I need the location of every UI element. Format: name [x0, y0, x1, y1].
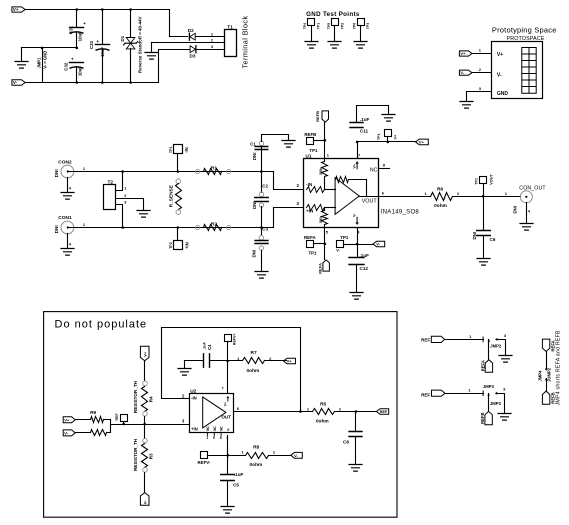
svg-text:NC: NC: [370, 167, 378, 173]
svg-text:D2: D2: [188, 28, 194, 33]
svg-text:Do not populate: Do not populate: [55, 319, 148, 331]
svg-text:+IN: +IN: [191, 427, 198, 432]
svg-text:TP4: TP4: [303, 23, 307, 29]
ground: [350, 293, 363, 300]
svg-text:U1: U1: [305, 154, 311, 160]
test point pad REFB: [322, 111, 329, 122]
svg-text:C33: C33: [89, 40, 94, 49]
svg-text:C1: C1: [250, 142, 256, 147]
svg-text:REFB: REFB: [550, 392, 555, 403]
net tag V- to protospace: [459, 70, 472, 75]
svg-text:GND: GND: [497, 91, 509, 97]
wire U1 pin 5 (REF A): [324, 228, 326, 260]
U1 internal resistor (+IN): [307, 205, 325, 211]
test point REFA square: [307, 241, 314, 248]
svg-text:GND Test Points: GND Test Points: [306, 11, 360, 18]
svg-text:JMP3: JMP3: [490, 401, 502, 406]
svg-text:REFV+: REFV+: [232, 333, 236, 345]
svg-text:R8: R8: [253, 444, 259, 450]
ground: [184, 361, 186, 369]
test point -IN: [174, 145, 183, 154]
svg-text:1: 1: [206, 436, 208, 440]
svg-text:R4: R4: [148, 396, 153, 402]
svg-text:REFV-: REFV-: [198, 460, 211, 465]
svg-text:REFA: REFA: [550, 340, 555, 351]
svg-text:DNI: DNI: [252, 201, 257, 209]
resistor R3 RESISTOR_TH: [144, 425, 146, 439]
capacitor C31 10uF: [76, 10, 78, 28]
net tag REF (R5): [376, 409, 388, 415]
svg-text:D1: D1: [120, 35, 125, 41]
svg-text:C32: C32: [64, 62, 69, 71]
capacitor C1 (DNI) with ground: [261, 146, 263, 172]
wire REF divider net: [111, 424, 190, 426]
svg-text:REFB: REFB: [304, 132, 316, 137]
wire U2 pin 6 output to R5: [234, 411, 313, 413]
svg-text:R5: R5: [320, 402, 326, 408]
U1 V+ arrow: [356, 163, 358, 169]
svg-text:NC: NC: [213, 426, 217, 431]
svg-text:T2: T2: [108, 180, 114, 186]
test point TP3 (GND): [358, 19, 365, 26]
svg-text:REF: REF: [421, 393, 430, 398]
svg-text:R7: R7: [251, 350, 257, 356]
ground: [382, 115, 395, 122]
net tag V- (R8): [291, 452, 302, 458]
svg-text:V- = GND: V- = GND: [42, 51, 47, 69]
svg-text:C12: C12: [360, 266, 369, 271]
svg-text:REFB: REFB: [315, 111, 320, 122]
ground: [61, 193, 74, 200]
net tag V+ vertical (R4): [140, 346, 149, 361]
svg-text:V-: V-: [143, 500, 148, 504]
svg-text:TP5: TP5: [327, 23, 331, 29]
test point REFV+ square: [225, 335, 232, 342]
ground: [305, 42, 318, 49]
svg-text:JUMP2: JUMP2: [547, 367, 552, 382]
svg-text:NC: NC: [206, 426, 210, 431]
svg-text:TP1: TP1: [316, 23, 320, 29]
svg-text:TP1: TP1: [377, 134, 381, 141]
net tag V- (DNP): [63, 430, 75, 436]
U1 internal resistor (REF B): [324, 159, 326, 162]
resistor R4 RESISTOR_TH: [144, 361, 146, 381]
svg-text:Reverse Standoff = 40-44V: Reverse Standoff = 40-44V: [138, 16, 143, 73]
terminal block T1: [225, 30, 237, 57]
svg-text:0ohm: 0ohm: [247, 368, 260, 374]
wire U1 pin 1 (REF B): [324, 123, 326, 159]
svg-text:DNI: DNI: [513, 206, 518, 214]
svg-text:DNI: DNI: [252, 250, 257, 258]
svg-text:Terminal Block: Terminal Block: [241, 15, 250, 68]
wire V+ rail: [26, 10, 170, 37]
svg-text:380k: 380k: [319, 216, 323, 224]
test point REFB square: [307, 138, 314, 145]
svg-text:.1uF: .1uF: [202, 341, 206, 349]
capacitor C12 .1uF: [349, 258, 364, 265]
svg-text:V+: V+: [394, 134, 398, 140]
resistor R9 bottom half: [76, 432, 91, 434]
net tag V+ to protospace: [459, 51, 472, 56]
svg-text:.1uF: .1uF: [360, 253, 370, 258]
svg-text:V-: V-: [460, 70, 464, 75]
wire REF to JMP2: [445, 339, 484, 341]
wire CON1 pin 4 to ground: [67, 234, 69, 249]
capacitor C11 .1uF: [350, 123, 363, 128]
TVS diode D1 Reverse Standoff = 40-44V: [130, 10, 132, 38]
svg-text:REFA: REFA: [481, 360, 486, 371]
U2 NC pins: [208, 432, 222, 436]
svg-text:10uF: 10uF: [78, 31, 83, 41]
svg-text:0ohm: 0ohm: [434, 203, 447, 209]
svg-text:-IN: -IN: [191, 396, 197, 401]
jumper JMP2: [488, 340, 491, 342]
net tag V+ (supply input): [12, 7, 25, 12]
svg-text:R1: R1: [211, 165, 217, 171]
svg-text:VOUT: VOUT: [362, 199, 378, 205]
wire REF to JMP3: [445, 393, 484, 395]
ground: [498, 414, 511, 421]
test point TP1 on V-: [337, 241, 344, 248]
svg-text:R2: R2: [211, 221, 217, 227]
capacitor C32 10uF: [70, 62, 84, 64]
ground: [61, 249, 74, 256]
svg-text:V+: V+: [353, 164, 357, 169]
svg-text:380k: 380k: [319, 168, 323, 176]
svg-text:V-: V-: [13, 80, 18, 85]
svg-text:DNI: DNI: [252, 153, 257, 161]
svg-text:V+: V+: [13, 7, 19, 12]
svg-text:V+: V+: [287, 359, 293, 364]
svg-text:+IN: +IN: [184, 242, 189, 249]
svg-text:10uF: 10uF: [78, 66, 83, 76]
resistor R9 top half: [76, 419, 91, 421]
svg-text:V-: V-: [294, 453, 298, 458]
svg-text:V-: V-: [226, 428, 230, 431]
svg-text:REF: REF: [115, 413, 119, 421]
test point TP1 on V+: [385, 130, 392, 137]
svg-text:R9: R9: [90, 410, 96, 416]
svg-text:V-: V-: [376, 242, 380, 247]
U1 internal feedback resistor: [336, 177, 349, 183]
svg-text:C31: C31: [68, 25, 73, 34]
connector CON_OUT (DNI): [520, 191, 532, 203]
svg-text:.1uF: .1uF: [360, 117, 370, 122]
test point REFV- square: [201, 452, 208, 459]
svg-text:V+: V+: [64, 418, 70, 423]
wire protospace pin 2: [473, 72, 492, 74]
svg-text:-IN: -IN: [306, 182, 313, 187]
net tag REFA (JMP2): [485, 360, 492, 373]
svg-text:NC: NC: [220, 426, 224, 431]
svg-text:C6: C6: [490, 237, 496, 242]
svg-text:5: 5: [213, 436, 215, 440]
ground: [499, 356, 512, 363]
net tag V- vertical (R3): [140, 493, 149, 506]
prototyping grid: [522, 48, 536, 94]
svg-text:TP1: TP1: [340, 235, 349, 240]
terminal block T2: [104, 185, 116, 210]
svg-text:INA149_SO8: INA149_SO8: [381, 209, 420, 215]
ground: [21, 48, 23, 62]
svg-text:JMP4: JMP4: [538, 370, 543, 382]
capacitor C2 (DNI): [261, 172, 263, 193]
net tag V+ (R7): [283, 358, 295, 364]
wire T2 pin 2 to ground: [116, 199, 144, 211]
svg-text:REFA: REFA: [304, 235, 317, 240]
svg-text:TP1: TP1: [309, 148, 318, 153]
net tag REFB (JMP3): [485, 411, 492, 424]
svg-text:0ohm: 0ohm: [250, 462, 263, 468]
test point TP1 (GND): [308, 19, 315, 26]
svg-text:TP1: TP1: [169, 147, 173, 154]
U1 internal resistor (REF A): [324, 208, 326, 211]
capacitor C3 (DNI) with ground: [261, 228, 263, 236]
do not populate boundary box: [44, 312, 397, 518]
net tag V+: [416, 139, 429, 145]
capacitor C33 10uF: [102, 10, 104, 45]
capacitor C5 .1uF with ground: [221, 475, 234, 481]
capacitor C4 .1uF: [185, 360, 204, 362]
svg-text:-IN: -IN: [184, 147, 189, 153]
svg-text:V+: V+: [224, 402, 228, 406]
resistor R8 0ohm: [228, 455, 246, 457]
svg-text:JMP1: JMP1: [37, 57, 42, 69]
ground: [520, 224, 533, 231]
svg-text:Prototyping Space: Prototyping Space: [492, 25, 557, 34]
resistor R2: [196, 225, 200, 229]
ground: [354, 42, 367, 49]
wire U1 pin 6 output: [379, 196, 431, 198]
svg-text:TP2: TP2: [169, 242, 173, 249]
ground: [328, 42, 341, 49]
svg-text:V+: V+: [419, 140, 425, 145]
svg-text:TP1: TP1: [309, 251, 318, 256]
net tag V-: [358, 244, 373, 246]
net tag V- (supply input): [12, 80, 25, 86]
connector CON2 (DNI): [61, 165, 74, 178]
test point REF: [121, 415, 128, 422]
svg-text:VOUT: VOUT: [489, 173, 493, 184]
svg-text:V+: V+: [460, 51, 466, 56]
svg-text:REFA: REFA: [318, 263, 323, 274]
op-amp U1 INA149_SO8: [304, 159, 379, 228]
test point pad REFA: [323, 260, 330, 271]
svg-text:V-: V-: [64, 431, 68, 436]
svg-text:10uF: 10uF: [100, 46, 105, 56]
svg-text:8: 8: [220, 436, 222, 440]
U1 output wire pin 6: [360, 196, 379, 198]
svg-text:DNI: DNI: [54, 169, 59, 177]
wire CON_OUT pin 4 to ground: [526, 203, 528, 224]
wire CON2 pin 1 net: [68, 171, 262, 173]
svg-text:C5: C5: [233, 483, 239, 488]
svg-text:R_SENSE: R_SENSE: [168, 184, 174, 207]
net tag REFB (JMP4): [542, 391, 549, 404]
svg-text:V+: V+: [497, 52, 503, 58]
svg-text:REF: REF: [421, 338, 430, 343]
svg-text:CON2: CON2: [58, 159, 72, 165]
svg-text:REF: REF: [380, 410, 388, 414]
wire V+ net: [358, 141, 416, 143]
svg-text:U2: U2: [190, 389, 196, 395]
wire R2 net to U1 pin 3: [262, 208, 304, 228]
svg-text:TP1: TP1: [475, 178, 479, 185]
U1 V- arrow: [356, 217, 358, 223]
diode D3: [159, 49, 190, 51]
svg-text:TP3: TP3: [366, 23, 370, 29]
svg-text:DNI: DNI: [54, 225, 59, 233]
svg-text:C2: C2: [262, 183, 268, 188]
wire GND to T1 pin 2: [152, 42, 225, 44]
test point +IN: [174, 241, 183, 250]
wire protospace pin 3: [467, 92, 492, 102]
wire R1 net to U1 pin 2: [262, 172, 304, 190]
U2 V+ arrow: [227, 397, 229, 401]
wire T2 pin 3: [116, 205, 123, 228]
svg-text:CON_OUT: CON_OUT: [519, 185, 546, 191]
test point TP2 (GND): [332, 19, 339, 26]
svg-text:TP6: TP6: [353, 23, 357, 29]
svg-text:+: +: [71, 57, 74, 62]
svg-text:JMP4 shorts REFA and REFB: JMP4 shorts REFA and REFB: [556, 330, 562, 405]
svg-text:R3: R3: [148, 453, 153, 459]
svg-text:C8: C8: [343, 440, 349, 445]
resistor R_SENSE (DNI): [176, 179, 181, 184]
wire CON1 pin 1 net: [68, 227, 262, 229]
svg-text:C11: C11: [360, 128, 369, 133]
resistor R1: [196, 169, 200, 173]
svg-text:JMP3: JMP3: [483, 384, 495, 389]
wire R6 to output node: [453, 196, 521, 198]
svg-text:D3: D3: [190, 54, 196, 59]
capacitor C6 (DNI) with ground: [483, 197, 485, 231]
net tag REFA (JMP4): [542, 339, 549, 351]
wire U1 pin 8 NC stub: [379, 168, 390, 170]
wire U1 pin 7 (V+): [357, 142, 359, 159]
connector CON1 (DNI): [61, 221, 74, 234]
svg-text:RESISTOR_TH: RESISTOR_TH: [133, 438, 138, 471]
svg-text:T1: T1: [227, 24, 233, 30]
wire U2 pin 4 net: [227, 436, 229, 475]
svg-text:REFB: REFB: [480, 412, 485, 423]
svg-text:CON1: CON1: [58, 215, 72, 221]
svg-text:V+: V+: [143, 351, 148, 357]
wire T2 pin 1: [116, 172, 123, 191]
jumper JMP1 V- = GND: [42, 48, 44, 83]
ground: [151, 43, 153, 53]
svg-text:JMP2: JMP2: [490, 343, 502, 348]
wire U2 pin 7 V+ net: [227, 342, 229, 394]
svg-text:V-: V-: [497, 72, 502, 78]
wire CON2 pin 4 to ground: [67, 178, 69, 193]
test point TP1 VOUT: [480, 177, 487, 184]
svg-text:C4: C4: [207, 344, 212, 350]
svg-text:R6: R6: [437, 187, 443, 193]
svg-text:+: +: [83, 21, 86, 26]
op-amp U2: [190, 394, 234, 433]
svg-text:0ohm: 0ohm: [316, 419, 329, 425]
ground: [460, 102, 473, 109]
svg-text:.1uF: .1uF: [234, 472, 244, 477]
jumper JMP4: [546, 352, 548, 370]
wire protospace pin 1: [473, 53, 492, 55]
U1 internal resistor (-IN): [307, 187, 325, 193]
wire U1 pin 4 (V-): [357, 228, 359, 258]
diode D2: [170, 36, 188, 38]
wire mid rail (V- = GND net): [22, 47, 77, 49]
net tag V+ (DNP): [63, 417, 75, 423]
svg-text:TP2: TP2: [340, 23, 344, 29]
svg-text:DNI: DNI: [472, 232, 477, 240]
svg-text:OUT: OUT: [221, 415, 231, 420]
svg-text:RESISTOR_TH: RESISTOR_TH: [133, 380, 138, 413]
ground: [137, 211, 150, 218]
svg-text:+: +: [96, 39, 99, 44]
op-amp U2 feedback loop wire: [162, 328, 301, 412]
wire V- rail: [26, 50, 159, 83]
capacitor C8 with ground: [355, 412, 357, 432]
